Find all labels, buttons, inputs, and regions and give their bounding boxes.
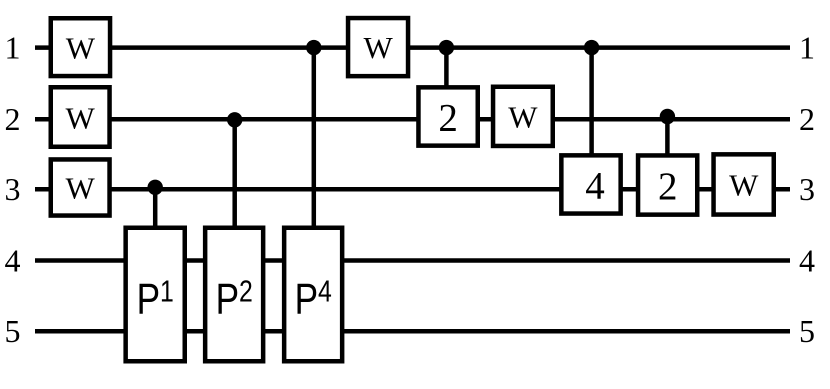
svg-text:2: 2 (5, 101, 21, 137)
svg-text:4: 4 (799, 242, 815, 278)
svg-text:3: 3 (799, 171, 815, 207)
svg-text:2: 2 (658, 165, 678, 208)
svg-text:W: W (65, 100, 95, 135)
svg-text:5: 5 (799, 313, 815, 349)
svg-text:4: 4 (5, 242, 21, 278)
svg-text:1: 1 (5, 29, 21, 65)
svg-text:W: W (508, 99, 538, 134)
svg-text:2: 2 (438, 96, 458, 139)
svg-text:3: 3 (5, 171, 21, 207)
svg-text:W: W (66, 31, 96, 66)
svg-text:W: W (363, 30, 393, 65)
svg-text:5: 5 (5, 313, 21, 349)
svg-text:W: W (729, 168, 759, 203)
svg-text:W: W (65, 171, 95, 206)
svg-text:1: 1 (799, 29, 815, 65)
svg-text:2: 2 (799, 101, 815, 137)
svg-text:4: 4 (585, 165, 605, 208)
